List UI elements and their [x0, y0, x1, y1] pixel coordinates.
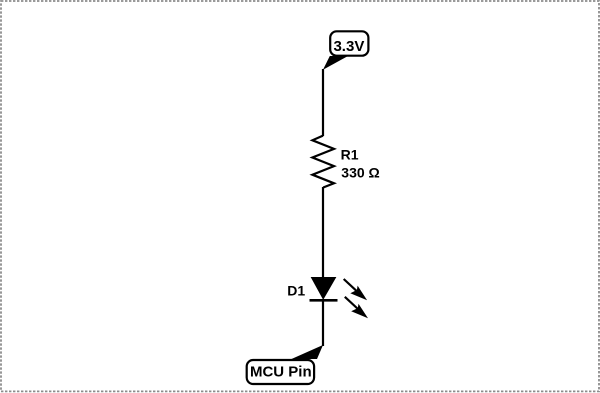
- svg-text:D1: D1: [287, 282, 305, 298]
- svg-text:3.3V: 3.3V: [333, 38, 364, 55]
- svg-text:R1: R1: [341, 147, 359, 163]
- svg-text:MCU Pin: MCU Pin: [250, 364, 312, 381]
- svg-text:330 Ω: 330 Ω: [341, 165, 379, 181]
